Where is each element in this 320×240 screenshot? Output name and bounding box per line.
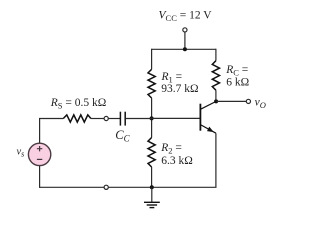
junction collector node: [214, 99, 218, 103]
wire RC column lower: [215, 90, 217, 101]
label vO: [255, 96, 266, 110]
resistor RC: [212, 61, 219, 90]
capacitor CC: [120, 112, 125, 126]
wire RC column upper: [215, 49, 217, 61]
wire top rail: [152, 48, 216, 50]
resistor RS: [63, 115, 91, 122]
source vs: [28, 143, 50, 165]
label R2 value: [160, 142, 193, 167]
svg-text:R2 =: R2 =: [160, 142, 182, 156]
transistor Q1: [200, 101, 216, 133]
svg-text:6.3 kΩ: 6.3 kΩ: [161, 155, 193, 167]
wire bottom rail left: [40, 186, 105, 188]
svg-text:vs: vs: [17, 147, 25, 159]
svg-text:6 kΩ: 6 kΩ: [226, 76, 249, 88]
terminal VCC: [183, 28, 187, 32]
terminal bottom: [104, 185, 108, 189]
label R1 value: [161, 71, 199, 95]
junction VCC tap: [183, 47, 187, 51]
resistor R2: [148, 138, 155, 168]
wire left column middle: [151, 98, 153, 138]
svg-text:CC: CC: [115, 128, 130, 144]
wire source bottom lead: [39, 166, 41, 188]
wire base: [152, 117, 201, 119]
wire VCC stub: [184, 32, 186, 49]
wire terminal to capacitor: [108, 118, 120, 120]
resistor R1: [148, 69, 155, 98]
label RC value: [225, 64, 249, 88]
svg-text:93.7 kΩ: 93.7 kΩ: [161, 83, 198, 95]
junction base node: [150, 116, 154, 120]
svg-text:VCC = 12 V: VCC = 12 V: [159, 10, 213, 24]
label VCC = 12 V: [159, 10, 213, 24]
wire capacitor to base node: [125, 118, 151, 120]
svg-text:RS = 0.5 kΩ: RS = 0.5 kΩ: [50, 97, 107, 111]
terminal vO: [246, 99, 250, 103]
ground: [144, 187, 160, 207]
label vs: [17, 147, 25, 159]
terminal input: [104, 116, 108, 120]
wire bottom rail right: [108, 186, 216, 188]
wire output: [216, 100, 246, 102]
wire left column lower: [151, 167, 153, 187]
wire RS to input terminal: [91, 118, 104, 120]
label CC: [115, 128, 130, 144]
svg-text:vO: vO: [255, 96, 266, 110]
wire left column upper: [151, 49, 153, 70]
wire emitter: [215, 133, 217, 187]
wire source top lead: [39, 119, 63, 144]
junction ground node: [150, 185, 154, 189]
label RS = 0.5 kOhm: [50, 97, 107, 111]
